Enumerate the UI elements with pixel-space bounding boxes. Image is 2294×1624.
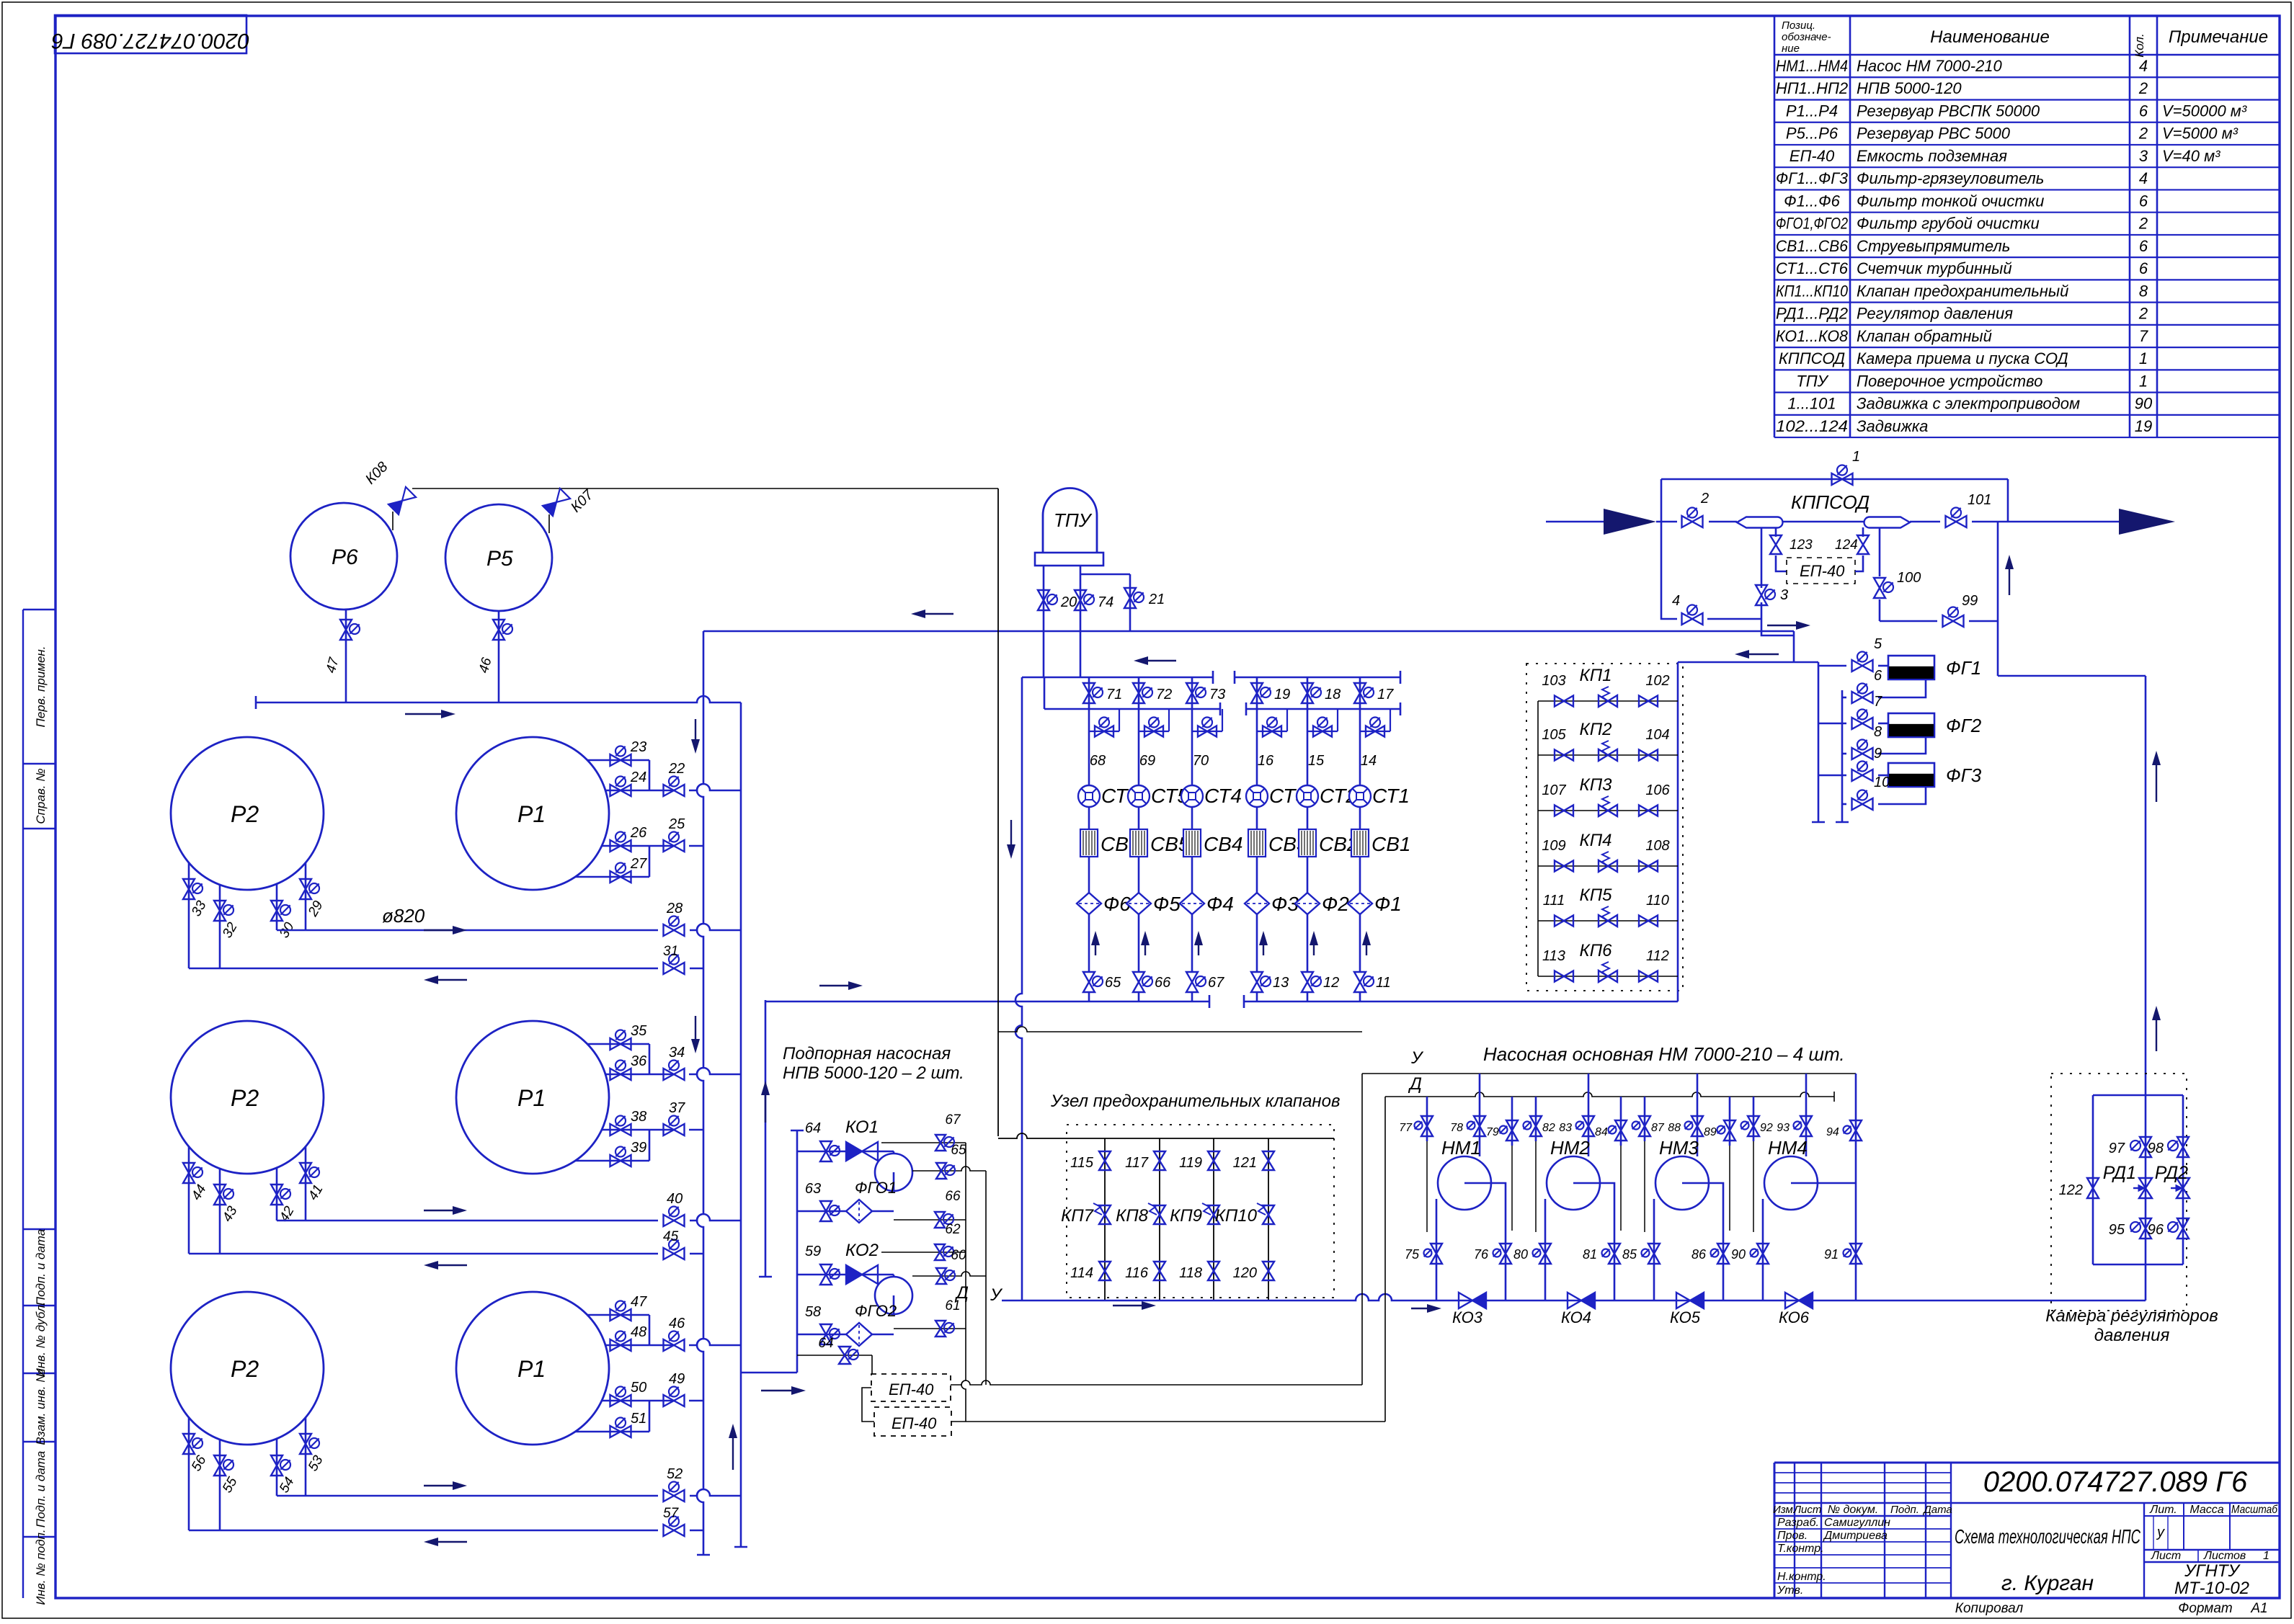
svg-text:81: 81 — [1583, 1247, 1597, 1262]
valve 42 — [271, 1184, 283, 1205]
valve 55 — [214, 1455, 226, 1476]
svg-text:КО4: КО4 — [1561, 1308, 1591, 1326]
svg-text:СТ4: СТ4 — [1204, 785, 1242, 807]
wire ФГ3 inlet — [1818, 775, 1846, 776]
svg-text:Ф2: Ф2 — [1322, 893, 1349, 915]
svg-text:28: 28 — [666, 901, 683, 916]
safety valve КП8 — [1154, 1205, 1165, 1224]
wire valve 3 to filters — [1761, 602, 1794, 635]
svg-text:КП3: КП3 — [1580, 775, 1613, 795]
valve 30 — [271, 901, 283, 921]
svg-text:2: 2 — [1700, 491, 1709, 507]
svg-text:96: 96 — [2148, 1222, 2164, 1238]
svg-text:106: 106 — [1645, 782, 1670, 798]
svg-text:13: 13 — [1273, 975, 1289, 991]
svg-text:12: 12 — [1323, 975, 1339, 991]
wire safety riser КП9 — [1213, 1138, 1214, 1300]
valve 101 — [1946, 516, 1967, 527]
valve 60 — [936, 1268, 946, 1284]
valve 26 — [610, 840, 631, 852]
valve 52 — [664, 1490, 685, 1502]
wire ЕП-40 bracket — [862, 1388, 874, 1422]
svg-text:РД1...РД2: РД1...РД2 — [1776, 305, 1848, 323]
svg-text:А1: А1 — [2250, 1601, 2267, 1616]
svg-text:51: 51 — [631, 1411, 646, 1427]
svg-text:Камера регуляторов: Камера регуляторов — [2045, 1306, 2218, 1326]
svg-text:Р1: Р1 — [517, 1085, 546, 1111]
wire main transit line (tanks side) — [703, 630, 1794, 633]
valve 19 — [1251, 683, 1263, 703]
svg-text:Ф4: Ф4 — [1206, 893, 1234, 915]
svg-text:Поверочное устройство: Поверочное устройство — [1857, 372, 2042, 390]
filter ФГ3 — [1888, 763, 1934, 787]
flow arrow right under safety unit — [1113, 1305, 1143, 1306]
valve 67 — [1186, 972, 1198, 992]
svg-text:ЕП-40: ЕП-40 — [892, 1414, 937, 1432]
svg-text:15: 15 — [1308, 753, 1325, 769]
wire Р1 right loops — [587, 1314, 649, 1316]
svg-text:79: 79 — [1486, 1126, 1499, 1138]
svg-text:у: у — [2156, 1525, 2165, 1540]
svg-text:Самигуллин: Самигуллин — [1824, 1517, 1890, 1529]
svg-text:111: 111 — [1543, 893, 1565, 909]
pump НМ2 — [1547, 1156, 1600, 1210]
wire НМ4 discharge — [1818, 1182, 1856, 1184]
svg-text:КП1: КП1 — [1580, 666, 1612, 685]
svg-text:59: 59 — [805, 1244, 821, 1259]
svg-text:45: 45 — [663, 1229, 679, 1244]
check valve КО5 — [1676, 1293, 1690, 1308]
svg-text:18: 18 — [1325, 687, 1341, 702]
svg-text:Фильтр-грязеуловитель: Фильтр-грязеуловитель — [1857, 169, 2044, 187]
valve 41 — [300, 1163, 311, 1183]
svg-text:обозначе-: обозначе- — [1782, 31, 1831, 43]
svg-text:120: 120 — [1233, 1265, 1257, 1281]
svg-text:85: 85 — [1622, 1247, 1637, 1262]
valve 113 — [1555, 971, 1573, 982]
wire ТПУ outlet lines — [1043, 566, 1045, 678]
wire incoming mainline — [1546, 521, 1604, 523]
svg-text:ЕП-40: ЕП-40 — [889, 1380, 934, 1398]
svg-text:ФГО1: ФГО1 — [855, 1179, 897, 1197]
wire Р2 bottom stubs — [188, 862, 190, 968]
svg-text:СТ1...СТ6: СТ1...СТ6 — [1776, 259, 1849, 277]
valve 56 — [183, 1434, 195, 1454]
svg-text:37: 37 — [669, 1100, 685, 1116]
tank Р2 (row) — [171, 1021, 324, 1174]
wire meter run СТ1 — [1359, 677, 1361, 709]
svg-text:26: 26 — [630, 825, 647, 841]
valve 40 — [664, 1215, 685, 1226]
svg-text:КО3: КО3 — [1452, 1308, 1483, 1326]
wire ФГО1 suction line — [797, 1210, 894, 1213]
pressure regulator РД1 — [2139, 1178, 2152, 1198]
straightener СВ3 — [1248, 829, 1266, 857]
svg-text:1...101: 1...101 — [1787, 395, 1836, 413]
svg-text:119: 119 — [1179, 1155, 1202, 1171]
wire Д header (black) — [1385, 1092, 1834, 1097]
svg-text:4: 4 — [2139, 57, 2148, 75]
wire safety riser КП10 — [1268, 1138, 1269, 1300]
svg-text:6: 6 — [2139, 259, 2148, 277]
wire relief header (black) — [997, 488, 999, 1136]
wire safety riser КП7 — [1104, 1138, 1106, 1300]
svg-text:КП4: КП4 — [1580, 831, 1612, 850]
svg-text:34: 34 — [669, 1045, 685, 1061]
wire ФГ1 inlet — [1818, 665, 1846, 666]
valve 14 (bypass) — [1360, 731, 1390, 732]
svg-text:КП1...КП10: КП1...КП10 — [1776, 282, 1849, 300]
svg-text:МТ-10-02: МТ-10-02 — [2174, 1579, 2249, 1598]
svg-text:65: 65 — [1105, 975, 1121, 991]
valve 122 — [2087, 1178, 2099, 1198]
flow arrow on tank header — [405, 713, 443, 715]
wire meter run СТ3 — [1256, 677, 1258, 709]
wire trunk 1 (return to tanks) — [697, 631, 703, 1555]
svg-text:117: 117 — [1125, 1155, 1149, 1171]
wire НМ3 aux risers — [1644, 1097, 1646, 1141]
safety valve КП4 — [1599, 860, 1617, 872]
tank Р6 — [290, 503, 397, 610]
wire booster suction header — [796, 1130, 799, 1373]
flow arrow outgoing mainline — [2119, 509, 2175, 535]
wire ФГ3 outlet — [1878, 787, 1926, 804]
wire collector y919 — [1678, 661, 1818, 664]
svg-text:Формат: Формат — [2178, 1601, 2232, 1616]
straightener СВ4 — [1183, 829, 1201, 857]
svg-text:Изм.: Изм. — [1773, 1504, 1796, 1516]
valve 109 — [1555, 861, 1573, 872]
valve 62 — [935, 1244, 945, 1260]
svg-text:98: 98 — [2148, 1141, 2164, 1156]
wire meter run СТ4 — [1191, 677, 1193, 709]
wire КП row КП3 — [1538, 810, 1678, 811]
valve 70 (bypass) — [1192, 731, 1222, 732]
valve 29 — [300, 879, 311, 899]
svg-text:110: 110 — [1646, 893, 1669, 909]
tank Р1 (row) — [456, 737, 609, 890]
svg-text:КО2: КО2 — [845, 1241, 879, 1260]
check valve КО6 — [1785, 1293, 1799, 1308]
svg-text:121: 121 — [1233, 1155, 1257, 1171]
flow arrow right near booster corner — [761, 1390, 793, 1391]
svg-text:Кол.: Кол. — [2133, 33, 2146, 57]
tank Р1 (row) — [456, 1021, 609, 1174]
svg-text:19: 19 — [2135, 417, 2152, 435]
svg-text:58: 58 — [805, 1304, 821, 1320]
svg-text:94: 94 — [1826, 1126, 1839, 1138]
svg-text:102: 102 — [1645, 673, 1669, 689]
wire НМ3 discharge — [1709, 1183, 1723, 1300]
pump НМ3 — [1655, 1156, 1709, 1210]
svg-text:Р1: Р1 — [517, 1356, 546, 1382]
svg-text:ФГ3: ФГ3 — [1946, 764, 1982, 786]
wire meter drain riser — [1015, 677, 1022, 1300]
svg-text:Ф1...Ф6: Ф1...Ф6 — [1784, 192, 1841, 210]
valve 31 — [664, 963, 685, 974]
flow arrow down trunk1 b — [695, 1016, 696, 1040]
svg-text:Лит.: Лит. — [2149, 1504, 2177, 1516]
svg-text:108: 108 — [1645, 838, 1669, 854]
svg-text:63: 63 — [805, 1181, 821, 1197]
filter ФГ1 — [1888, 656, 1934, 679]
turbine meter СТ2 — [1297, 785, 1318, 807]
valve 23 — [610, 754, 631, 766]
wire barrel B drains — [1862, 527, 1864, 537]
valve 17 — [1354, 683, 1366, 703]
valve 61 — [935, 1321, 946, 1337]
pressure regulator РД2 — [2177, 1178, 2189, 1198]
valve 72 — [1133, 683, 1144, 703]
valve 35 — [610, 1038, 631, 1050]
svg-text:Масса: Масса — [2189, 1504, 2223, 1516]
svg-text:СВ1: СВ1 — [1371, 833, 1410, 855]
svg-text:0200.074727.089 Г6: 0200.074727.089 Г6 — [51, 29, 249, 53]
valve 16 (bypass) — [1257, 731, 1287, 732]
safety valve КП9 — [1208, 1205, 1219, 1224]
underground tank ЕП-40 (КППСОД) — [1787, 558, 1855, 584]
svg-text:113: 113 — [1542, 948, 1565, 964]
svg-text:Резервуар РВСПК 50000: Резервуар РВСПК 50000 — [1857, 102, 2040, 120]
svg-text:Пров.: Пров. — [1777, 1530, 1808, 1542]
prover ТПУ — [1043, 488, 1097, 553]
wire meter run СТ6 — [1088, 677, 1090, 709]
svg-text:Насос НМ 7000-210: Насос НМ 7000-210 — [1857, 57, 2003, 75]
pump НМ1 — [1438, 1156, 1491, 1210]
wire ФГ1 outlet — [1878, 679, 1926, 697]
safety valve КП7 — [1099, 1205, 1111, 1224]
valve 45 — [664, 1248, 685, 1259]
svg-text:Перв. примен.: Перв. примен. — [34, 646, 48, 728]
flow arrow down trunk1 a — [695, 719, 696, 741]
safety valve КП6 — [1599, 971, 1617, 982]
svg-text:Р1: Р1 — [517, 801, 546, 827]
svg-text:ЕП-40: ЕП-40 — [1800, 562, 1845, 580]
wire meter top collector right — [1235, 677, 1400, 679]
svg-text:10: 10 — [1874, 775, 1890, 790]
valve 9 — [1852, 769, 1873, 781]
valve 6 — [1852, 692, 1873, 703]
svg-text:КП6: КП6 — [1580, 941, 1613, 960]
svg-text:66: 66 — [1155, 975, 1171, 991]
safety valve КП5 — [1599, 915, 1617, 927]
svg-text:ФГ2: ФГ2 — [1946, 715, 1982, 736]
pump НП2 — [875, 1277, 912, 1314]
svg-text:68: 68 — [1090, 753, 1106, 769]
svg-text:122: 122 — [2059, 1182, 2083, 1198]
valve 91 — [1850, 1244, 1862, 1264]
svg-text:36: 36 — [631, 1053, 647, 1069]
svg-text:КО5: КО5 — [1670, 1308, 1701, 1326]
svg-text:6: 6 — [1874, 668, 1882, 684]
svg-text:17: 17 — [1377, 687, 1394, 702]
flow arrow left above meter collector — [1147, 660, 1176, 661]
svg-text:Схема технологическая НПС: Схема технологическая НПС — [1955, 1525, 2141, 1548]
svg-text:Емкость подземная: Емкость подземная — [1857, 147, 2007, 165]
wire НМ1 suction riser — [1479, 1074, 1481, 1156]
svg-text:83: 83 — [1559, 1122, 1572, 1134]
svg-text:ТПУ: ТПУ — [1796, 372, 1828, 390]
svg-text:КППСОД: КППСОД — [1791, 491, 1870, 513]
filter Ф2 — [1295, 893, 1320, 914]
safety valve КП3 — [1599, 805, 1617, 816]
valve 74 — [1075, 590, 1086, 610]
svg-text:64: 64 — [805, 1120, 821, 1136]
valve 78 — [1474, 1116, 1485, 1136]
svg-text:84: 84 — [1595, 1126, 1608, 1138]
svg-text:9: 9 — [1874, 746, 1882, 762]
svg-text:ЕП-40: ЕП-40 — [1790, 147, 1835, 165]
svg-text:НМ1: НМ1 — [1441, 1137, 1481, 1159]
wire НМ1 discharge — [1491, 1183, 1506, 1300]
svg-text:2: 2 — [2138, 215, 2148, 233]
flow arrow right (drain) — [1767, 625, 1797, 626]
svg-text:КП2: КП2 — [1580, 720, 1612, 739]
wire НМ2 suction riser — [1588, 1074, 1590, 1156]
valve 112 — [1639, 971, 1658, 982]
svg-text:90: 90 — [2135, 395, 2153, 413]
valve 87 — [1639, 1116, 1650, 1136]
valve 81 — [1609, 1244, 1620, 1264]
valve 64 — [820, 1141, 832, 1161]
svg-text:3: 3 — [1780, 587, 1788, 603]
svg-text:Масштаб: Масштаб — [2231, 1504, 2278, 1516]
flow arrow up run СТ5 — [1144, 944, 1146, 955]
valve 38 — [610, 1124, 631, 1136]
svg-text:Утв.: Утв. — [1777, 1584, 1803, 1597]
safety valve КП10 — [1263, 1205, 1274, 1224]
svg-text:Копировал: Копировал — [1955, 1601, 2024, 1616]
wire НМ4 suction from main — [1762, 1199, 1764, 1300]
valve 58 — [820, 1324, 832, 1344]
top-left stamp box 0200.074727.089 Г6 — [55, 15, 246, 53]
check valve КО2 — [846, 1265, 862, 1284]
svg-text:Лист: Лист — [2151, 1550, 2181, 1562]
valve 12 — [1302, 972, 1313, 992]
valve 116 — [1154, 1262, 1165, 1280]
flow arrow up riser — [2009, 568, 2010, 595]
svg-text:Дмитриева: Дмитриева — [1823, 1530, 1888, 1542]
flow arrow left on y919 — [1748, 653, 1779, 655]
svg-text:6: 6 — [2139, 237, 2148, 255]
svg-text:21: 21 — [1148, 592, 1165, 607]
wire Р1 right loops — [587, 1043, 649, 1045]
wire booster discharge riser — [765, 1000, 767, 1277]
svg-text:Струевыпрямитель: Струевыпрямитель — [1857, 237, 2010, 255]
valve 47 — [610, 1309, 631, 1321]
turbine meter СТ1 — [1349, 785, 1371, 807]
svg-text:118: 118 — [1179, 1265, 1202, 1281]
wire НМ2 suction from main — [1544, 1199, 1547, 1300]
svg-text:г. Курган: г. Курган — [2001, 1571, 2094, 1595]
svg-text:СТ1: СТ1 — [1372, 785, 1410, 807]
svg-text:4: 4 — [1672, 593, 1680, 609]
flow arrow left on transit line — [924, 613, 953, 615]
svg-text:65: 65 — [951, 1143, 966, 1158]
svg-text:46: 46 — [669, 1316, 685, 1331]
svg-text:114: 114 — [1070, 1265, 1093, 1281]
valve 24 — [610, 785, 631, 796]
valve 65 — [936, 1163, 946, 1179]
valve 95 — [2140, 1218, 2151, 1239]
wire ФГО2 suction line — [797, 1334, 894, 1336]
pump aux drain lines Д/У — [881, 1142, 966, 1143]
flow arrow up trunk2 — [732, 1437, 734, 1470]
pump НП1 — [875, 1154, 912, 1191]
valve 5 — [1852, 660, 1873, 672]
svg-text:66: 66 — [945, 1189, 961, 1204]
wire trunk2 to booster suction — [741, 1372, 797, 1374]
wire КП row КП5 — [1538, 920, 1678, 922]
filter Ф1 — [1348, 893, 1372, 914]
svg-text:СВ1...СВ6: СВ1...СВ6 — [1776, 237, 1849, 255]
straightener СВ2 — [1299, 829, 1316, 857]
svg-text:Р2: Р2 — [231, 801, 259, 827]
valve 18 — [1302, 683, 1313, 703]
valve 50 — [610, 1395, 631, 1406]
wire mainline after 101 — [1972, 521, 2119, 523]
svg-text:31: 31 — [663, 944, 678, 959]
flow arrow up run СТ4 — [1198, 944, 1199, 955]
valve 22 — [664, 785, 685, 796]
svg-text:14: 14 — [1361, 753, 1377, 769]
safety valve КП2 — [1599, 749, 1617, 761]
valve 33 — [183, 879, 195, 899]
svg-text:РД2: РД2 — [2155, 1163, 2188, 1183]
svg-text:НМ1...НМ4: НМ1...НМ4 — [1776, 57, 1848, 75]
svg-text:Узел предохранительных клапано: Узел предохранительных клапанов — [1050, 1092, 1341, 1111]
svg-text:Счетчик турбинный: Счетчик турбинный — [1857, 259, 2012, 277]
svg-text:87: 87 — [1651, 1122, 1665, 1134]
svg-text:73: 73 — [1209, 687, 1225, 702]
flow arrow up run СТ6 — [1095, 944, 1096, 955]
svg-text:Подп. и дата: Подп. и дата — [34, 1229, 48, 1306]
valve 86 — [1717, 1244, 1729, 1264]
wire Р2 bottom stubs — [188, 1417, 190, 1530]
svg-text:57: 57 — [663, 1506, 680, 1521]
wire meter bottom collector left — [765, 1001, 1209, 1003]
valve 100 — [1879, 527, 1881, 576]
svg-text:0200.074727.089 Г6: 0200.074727.089 Г6 — [1983, 1466, 2248, 1498]
svg-text:Подп. и дата: Подп. и дата — [34, 1451, 48, 1527]
svg-text:ние: ние — [1782, 43, 1800, 55]
svg-text:давления: давления — [2094, 1326, 2170, 1345]
svg-text:У: У — [990, 1285, 1003, 1305]
flow arrow up РД b — [2156, 1019, 2157, 1051]
wire meter bottom collector right — [1244, 1001, 1678, 1003]
svg-text:Фильтр грубой очистки: Фильтр грубой очистки — [1857, 215, 2040, 233]
wire supply collector row1 ф820 — [277, 929, 658, 932]
svg-text:77: 77 — [1399, 1122, 1413, 1134]
valve 96 — [2177, 1218, 2189, 1239]
valve 65 — [1083, 972, 1095, 992]
flow arrow main line right — [1411, 1308, 1428, 1309]
tank Р1 (row) — [456, 1292, 609, 1445]
straightener СВ1 — [1351, 829, 1369, 857]
svg-text:60: 60 — [951, 1248, 966, 1263]
wire meter run СТ5 — [1138, 677, 1140, 709]
svg-text:47: 47 — [631, 1294, 647, 1310]
valve 53 — [300, 1434, 311, 1454]
left margin column — [22, 610, 24, 1598]
turbine meter СТ6 — [1078, 785, 1100, 807]
valve 64 (drain) — [839, 1347, 850, 1364]
wire return collector row2 — [189, 1253, 658, 1255]
check valve КО4 — [1568, 1293, 1581, 1308]
valve 90 — [1757, 1244, 1769, 1264]
svg-text:НМ4: НМ4 — [1768, 1137, 1808, 1159]
check valve КО3 — [1459, 1293, 1472, 1308]
